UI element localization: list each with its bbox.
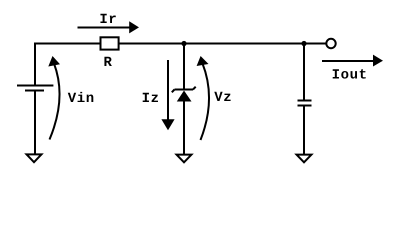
wire capacitor to right ground bbox=[303, 106, 305, 155]
curved arrow Vin bbox=[48, 56, 60, 140]
svg-text:Iout: Iout bbox=[332, 68, 368, 84]
wire zener to middle ground bbox=[183, 101, 185, 155]
wire bus to capacitor bbox=[303, 44, 305, 101]
ground middle bbox=[174, 154, 194, 164]
curved arrow Vz bbox=[197, 56, 209, 140]
wire top horizontal bus bbox=[34, 43, 326, 45]
arrow Iz bbox=[161, 60, 174, 130]
ground right bbox=[294, 154, 314, 164]
resistor R bbox=[101, 37, 119, 49]
node junction at capacitor branch bbox=[301, 41, 306, 46]
wire battery to left ground bbox=[34, 91, 36, 155]
battery Vin source bbox=[17, 86, 53, 91]
arrow Iout bbox=[322, 55, 383, 67]
svg-text:Ir: Ir bbox=[99, 12, 117, 28]
output terminal circle bbox=[326, 39, 335, 48]
svg-text:Iz: Iz bbox=[142, 91, 160, 107]
arrow Ir bbox=[78, 21, 140, 33]
capacitor C bbox=[298, 101, 312, 106]
svg-text:Vz: Vz bbox=[214, 90, 232, 106]
svg-text:Vin: Vin bbox=[68, 91, 95, 107]
ground left bbox=[24, 153, 44, 163]
node junction at zener branch bbox=[181, 41, 186, 46]
svg-text:R: R bbox=[104, 55, 113, 71]
wire left vertical from bus to battery bbox=[34, 43, 36, 86]
zener diode DZ bbox=[172, 87, 196, 102]
wire bus to zener bbox=[183, 44, 185, 91]
